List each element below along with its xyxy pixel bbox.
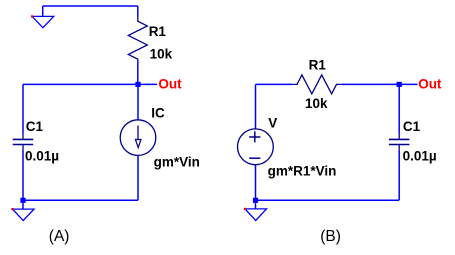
capacitor C1 (circuit B) <box>389 134 410 150</box>
wire: B right rail Out junction down to C1 <box>398 84 400 133</box>
wire: IC bottom to bottom wire <box>137 155 139 200</box>
svg-text:IC: IC <box>151 105 165 120</box>
wire: C1 bottom down to bottom wire (B) <box>398 150 400 200</box>
current source IC (U-A) <box>120 120 156 156</box>
wire: R1 top lead <box>137 6 139 17</box>
wire: bottom horizontal (A) <box>23 199 138 201</box>
svg-text:(B): (B) <box>320 228 341 245</box>
ground (A bottom) <box>11 208 34 221</box>
wire: Out junction down to IC top <box>137 84 139 119</box>
resistor R1 (vertical, circuit A) <box>128 17 147 62</box>
svg-text:(A): (A) <box>49 228 70 245</box>
wire: junction to Out label <box>138 83 157 85</box>
wire: junction to Out label (B) <box>399 83 417 85</box>
wire: stub to ground (A bottom) <box>22 203 24 209</box>
wire: top-left corner to R1 left lead <box>256 83 293 85</box>
wire: top horizontal from ground stub to R1 top <box>43 5 138 7</box>
resistor R1 (horizontal, circuit B) <box>292 75 341 94</box>
voltage source V (circuit B) <box>238 129 274 165</box>
junction (A bottom-left) <box>20 198 25 203</box>
wire: left rail down to C1 <box>22 84 24 133</box>
node Out (A) junction dot <box>135 82 140 87</box>
svg-text:0.01µ: 0.01µ <box>25 149 59 164</box>
svg-text:10k: 10k <box>305 96 328 111</box>
svg-text:R1: R1 <box>309 57 327 72</box>
svg-text:gm*R1*Vin: gm*R1*Vin <box>268 163 337 178</box>
wire: V source bottom to bottom-left junction (B) <box>255 165 257 201</box>
wire: C1 bottom to bottom-left junction <box>22 150 24 200</box>
node Out (B) junction dot <box>397 82 402 87</box>
svg-text:C1: C1 <box>26 119 44 134</box>
junction (B bottom-left) <box>253 198 258 203</box>
capacitor C1 (circuit A) <box>13 134 34 150</box>
wire: ground stub vertical (top-left) <box>42 6 44 16</box>
wire: bottom horizontal (B) <box>256 199 400 201</box>
ground (B bottom) <box>244 208 267 221</box>
wire: stub to ground (B bottom) <box>255 203 257 209</box>
svg-text:C1: C1 <box>403 119 421 134</box>
svg-text:0.01µ: 0.01µ <box>403 149 437 164</box>
wire: B left rail down to V source <box>255 84 257 128</box>
svg-text:gm*Vin: gm*Vin <box>154 155 200 170</box>
svg-text:R1: R1 <box>149 24 167 39</box>
ground (top-left) <box>31 15 54 27</box>
wire: R1 bottom lead to Out node <box>137 62 139 85</box>
svg-text:V: V <box>268 115 277 130</box>
svg-text:Out: Out <box>418 77 442 92</box>
wire: R1 right lead to Out junction <box>341 83 399 85</box>
svg-text:Out: Out <box>158 77 182 92</box>
svg-text:10k: 10k <box>150 46 173 61</box>
wire: middle horizontal C1 to junction <box>23 83 138 85</box>
